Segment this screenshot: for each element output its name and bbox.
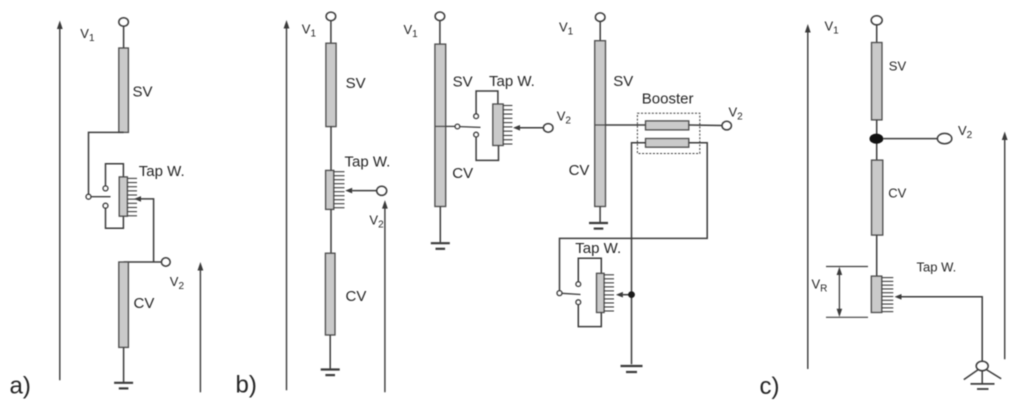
svg-text:V1: V1 <box>302 21 317 39</box>
svg-text:V1: V1 <box>80 26 95 44</box>
tap selector arrow (panel c) <box>895 294 902 300</box>
winding SV (panel b) <box>326 43 336 126</box>
terminal node V2 (panel b) <box>377 186 387 195</box>
selector moving contact wire (panel b2) <box>460 126 481 129</box>
rotating contact circle (panel c) <box>976 361 988 371</box>
svg-text:a): a) <box>10 373 31 400</box>
ground (panel b) <box>321 370 340 376</box>
winding mid-tap divider (panel b2) <box>435 125 446 127</box>
svg-text:SV: SV <box>613 73 633 90</box>
wire tap arrow to terminal V2 (panel b2) <box>520 127 543 129</box>
svg-text:b): b) <box>236 372 257 399</box>
svg-text:CV: CV <box>888 186 906 201</box>
tap winding Tap W. (panel c) <box>871 276 882 312</box>
VR dimension double arrow (panel c) <box>837 267 843 317</box>
wire junction to terminal V2 (panel c) <box>883 138 937 140</box>
terminal node V2 (panel b2) <box>543 124 553 133</box>
svg-text:Tap W.: Tap W. <box>345 154 391 171</box>
terminal node V2 (panel b3) <box>722 121 731 130</box>
winding CV (panel b) <box>325 253 335 335</box>
wire booster excited winding left to tap junction and ground (panel b3) <box>632 143 646 364</box>
svg-text:V2: V2 <box>557 109 572 127</box>
wire winding bottom to ground (panel b3) <box>599 207 601 223</box>
selector fixed contact upper (panel b3) <box>576 282 581 287</box>
terminal node V2 (panel a) <box>161 258 170 266</box>
svg-text:CV: CV <box>134 295 155 312</box>
rotating contact right leg (panel c) <box>987 370 1002 379</box>
selector common contact (panel b2) <box>455 124 460 129</box>
selector moving contact wire (panel b3) <box>562 293 581 294</box>
wire tap winding to CV (panel b) <box>330 209 332 253</box>
booster excited winding (panel b3) <box>646 139 689 148</box>
wire upper bracket to tap winding top (panel a) <box>106 164 124 186</box>
tap winding taps (panel b2) <box>503 106 512 145</box>
wire SV bottom to selector common (panel a) <box>89 132 124 194</box>
selector fixed contact lower (panel b2) <box>474 132 479 137</box>
wire terminal to winding (panel b3) <box>599 22 601 41</box>
booster series winding (panel b3) <box>646 121 689 130</box>
wire lower bracket to tap winding bottom (panel b3) <box>578 305 601 327</box>
wire CV top to terminal V2 (panel a) <box>124 261 162 263</box>
svg-text:c): c) <box>760 373 780 400</box>
V2 axis arrow (panel c) <box>1002 132 1008 360</box>
svg-text:SV: SV <box>346 75 366 92</box>
selector common contact (panel b3) <box>557 291 562 296</box>
terminal node V1 (panel b3) <box>595 13 605 22</box>
winding SV (panel a) <box>119 48 129 132</box>
tap winding Tap W. (panel b) <box>326 170 334 209</box>
tap winding Tap W. (panel a) <box>119 177 127 216</box>
V1 axis arrow (panel a) <box>57 21 63 381</box>
winding CV (panel a) <box>119 262 129 347</box>
main winding SV+CV (panel b2) <box>435 44 446 206</box>
wire SV to tap winding (panel b) <box>330 127 332 171</box>
ground main winding (panel b3) <box>589 223 608 229</box>
wire terminal to SV (panel b) <box>330 21 332 44</box>
selector fixed contact upper (panel b2) <box>474 114 479 119</box>
VR dimension bottom reference line (panel c) <box>826 316 868 318</box>
svg-text:CV: CV <box>452 165 473 182</box>
wire upper bracket to tap winding top (panel b3) <box>578 258 601 282</box>
wire lower bracket to tap winding bottom (panel a) <box>106 208 124 228</box>
booster dotted enclosure (panel b3) <box>637 113 699 153</box>
wire terminal to SV (panel c) <box>876 25 878 43</box>
wire booster series winding to terminal V2 (panel b3) <box>689 124 722 127</box>
wire SV to CV through junction (panel c) <box>876 120 878 160</box>
V2 axis arrow (panel b) <box>382 200 388 392</box>
junction dot V2 (panel c) <box>870 134 884 144</box>
tap winding taps (panel b3) <box>604 275 614 311</box>
wire winding bottom to ground (panel b2) <box>439 207 441 243</box>
terminal node V2 (panel c) <box>937 133 951 143</box>
wire CV bottom to ground (panel a) <box>123 347 125 382</box>
winding CV (panel c) <box>872 160 883 235</box>
selector fixed contact lower (panel b3) <box>576 300 581 305</box>
terminal node V1 (panel c) <box>871 16 882 25</box>
tap winding taps (panel a) <box>127 178 137 215</box>
V2 axis arrow (panel a) <box>198 262 204 392</box>
svg-text:V2: V2 <box>729 104 744 122</box>
selector common contact (panel a) <box>86 194 91 199</box>
selector fixed contact upper (panel a) <box>103 186 108 191</box>
wire lower bracket to tap winding bottom (panel b2) <box>476 137 498 160</box>
wire tap arrow to junction (panel b3) <box>623 294 632 296</box>
svg-text:V2: V2 <box>369 213 384 231</box>
svg-text:SV: SV <box>889 59 907 74</box>
tap winding taps (panel b) <box>334 172 345 208</box>
wire upper bracket to tap winding top (panel b2) <box>476 91 498 114</box>
terminal node V1 (panel a) <box>119 18 129 27</box>
V1 axis arrow (panel b) <box>284 20 290 390</box>
V1 axis arrow (panel c) <box>805 24 811 369</box>
svg-text:CV: CV <box>346 288 367 305</box>
svg-text:V2: V2 <box>958 123 973 141</box>
svg-text:VR: VR <box>812 277 828 295</box>
VR dimension top reference line (panel c) <box>826 266 868 268</box>
svg-text:V2: V2 <box>170 274 185 292</box>
wire winding tap to booster series winding (panel b3) <box>606 124 646 126</box>
svg-text:Tap W.: Tap W. <box>917 260 957 275</box>
terminal node V1 (panel b) <box>326 12 336 21</box>
wire CV to tap winding (panel c) <box>876 235 878 276</box>
wire booster excited winding right to selector common (panel b3) <box>560 143 708 291</box>
junction dot (panel b3) <box>628 291 635 298</box>
svg-text:Tap W.: Tap W. <box>139 163 185 180</box>
ground tap circuit (panel b3) <box>621 366 643 372</box>
tap selector arrow (panel a) <box>134 196 141 202</box>
selector fixed contact lower (panel a) <box>103 203 108 208</box>
rotating contact left leg (panel c) <box>964 370 978 380</box>
tap selector arrow (panel b) <box>345 188 352 194</box>
tap selector arrow (panel b2) <box>513 125 520 131</box>
tap winding Tap W. (panel b3) <box>597 273 605 312</box>
svg-text:CV: CV <box>569 162 590 179</box>
wire winding tap to selector common (panel b2) <box>446 125 455 127</box>
wire contact to ground (panel c) <box>981 371 983 384</box>
svg-text:SV: SV <box>453 74 473 91</box>
wire tap arrow to V2 line (panel a) <box>141 199 154 262</box>
ground (panel a) <box>114 383 133 389</box>
svg-text:Tap W.: Tap W. <box>575 240 621 257</box>
ground (panel c) <box>971 384 995 389</box>
tap winding taps (panel c) <box>882 278 894 312</box>
tap selector arrow (panel b3) <box>616 292 623 298</box>
svg-text:Booster: Booster <box>642 91 694 108</box>
tap winding Tap W. (panel b2) <box>493 104 503 146</box>
ground (panel b2) <box>431 243 450 249</box>
wire tap arrow to rotating earth contact (panel c) <box>902 297 983 362</box>
svg-text:SV: SV <box>133 84 153 101</box>
terminal node V1 (panel b2) <box>435 12 445 21</box>
svg-text:Tap W.: Tap W. <box>489 73 535 90</box>
wire tap arrow to terminal V2 (panel b) <box>352 190 377 192</box>
wire CV bottom to ground (panel b) <box>329 335 331 370</box>
winding SV (panel c) <box>872 43 883 120</box>
wire terminal to SV (panel a) <box>123 26 125 48</box>
selector moving contact wire (panel a) <box>91 196 111 198</box>
wire terminal to winding (panel b2) <box>439 21 441 44</box>
svg-text:V1: V1 <box>825 19 840 37</box>
svg-text:V1: V1 <box>404 22 419 40</box>
svg-text:V1: V1 <box>559 20 574 38</box>
winding mid-tap divider (panel b3) <box>595 124 606 126</box>
main winding SV+CV (panel b3) <box>595 41 606 207</box>
